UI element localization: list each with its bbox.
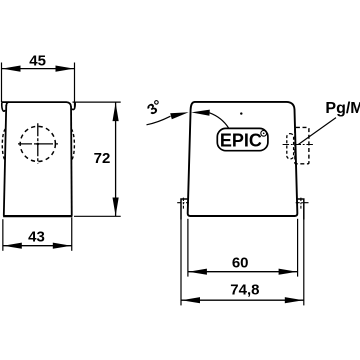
- hidden cable-entry boss right (dashed arc): [71, 129, 74, 160]
- hood side bottom edge: [3, 215, 72, 217]
- tab right centerline horizontal: [296, 202, 309, 204]
- 3 deg arrow pointing right at edge: [170, 112, 188, 119]
- dim 43 extension line left: [2, 219, 4, 251]
- tab right centerline vertical: [300, 198, 302, 209]
- hood side right wall: [70, 107, 73, 216]
- dim 72 line: [115, 102, 117, 216]
- 3 deg arrow pointing left at edge: [191, 110, 210, 116]
- dim 45 arrow left: [2, 66, 21, 72]
- cable entry hole (dashed circle): [20, 126, 55, 161]
- centerline vertical of hole: [37, 123, 39, 164]
- tab left centerline vertical: [182, 198, 184, 209]
- svg-text:74,8: 74,8: [230, 282, 259, 299]
- tab left centerline horizontal: [177, 202, 189, 204]
- svg-text:60: 60: [232, 254, 249, 271]
- hidden cable-entry boss left (dashed arc): [2, 129, 5, 160]
- dim 60 extension line right: [297, 219, 299, 277]
- dim 43 arrow right: [53, 243, 72, 249]
- EPIC registered mark: [261, 130, 267, 136]
- hood side top-left corner: [6, 102, 8, 106]
- dim 43 extension line right: [71, 218, 73, 251]
- gland centerline: [283, 144, 314, 146]
- dim 60 line: [188, 271, 298, 273]
- dim 45 extension line right: [74, 63, 76, 110]
- dim 74,8 extension line left: [180, 220, 182, 306]
- screw tab bottom-left: [181, 199, 188, 220]
- svg-text:72: 72: [94, 150, 111, 167]
- centerline horizontal of hole: [18, 143, 60, 145]
- hood front outline: [188, 102, 298, 216]
- hole center dot: [37, 143, 40, 146]
- dim 60 extension line left: [187, 219, 189, 277]
- Pg/M leader line: [298, 118, 336, 145]
- 3 deg leader from text: [147, 116, 171, 125]
- dim 72 arrow top: [113, 103, 119, 122]
- dim 72 extension line top: [73, 101, 121, 103]
- face dot: [240, 112, 242, 114]
- dim 74,8 arrow left: [182, 297, 201, 303]
- left latch lug: [2, 102, 5, 111]
- dim 60 arrow right: [279, 269, 298, 275]
- dim 43 line: [3, 245, 72, 247]
- screw tab bottom-right: [297, 199, 304, 220]
- dim 60 arrow left: [188, 269, 207, 275]
- svg-text:43: 43: [28, 229, 45, 246]
- hood side left wall: [4, 105, 6, 216]
- dim 45 extension line left: [1, 63, 3, 103]
- 3 deg leader to logo: [210, 113, 229, 128]
- svg-text:45: 45: [29, 53, 46, 70]
- gland hidden inner boss (dashed): [287, 134, 294, 159]
- dim 72 extension line bottom: [74, 215, 121, 217]
- svg-text:EPIC: EPIC: [220, 130, 262, 150]
- svg-text:Pg/M: Pg/M: [325, 100, 360, 117]
- right latch lug: [72, 102, 75, 109]
- gland hidden outer boss (dashed): [295, 127, 309, 163]
- dim 45 line: [2, 68, 75, 70]
- dim 45 arrow right: [56, 66, 75, 72]
- dim 74,8 extension line right: [303, 220, 305, 306]
- EPIC logo frame: [217, 128, 268, 150]
- dim 72 arrow bottom: [113, 198, 119, 217]
- dim 74,8 arrow right: [285, 297, 304, 303]
- hood side top edge: [2, 102, 71, 107]
- dim 74,8 line: [181, 299, 304, 301]
- dim 43 arrow left: [3, 243, 22, 249]
